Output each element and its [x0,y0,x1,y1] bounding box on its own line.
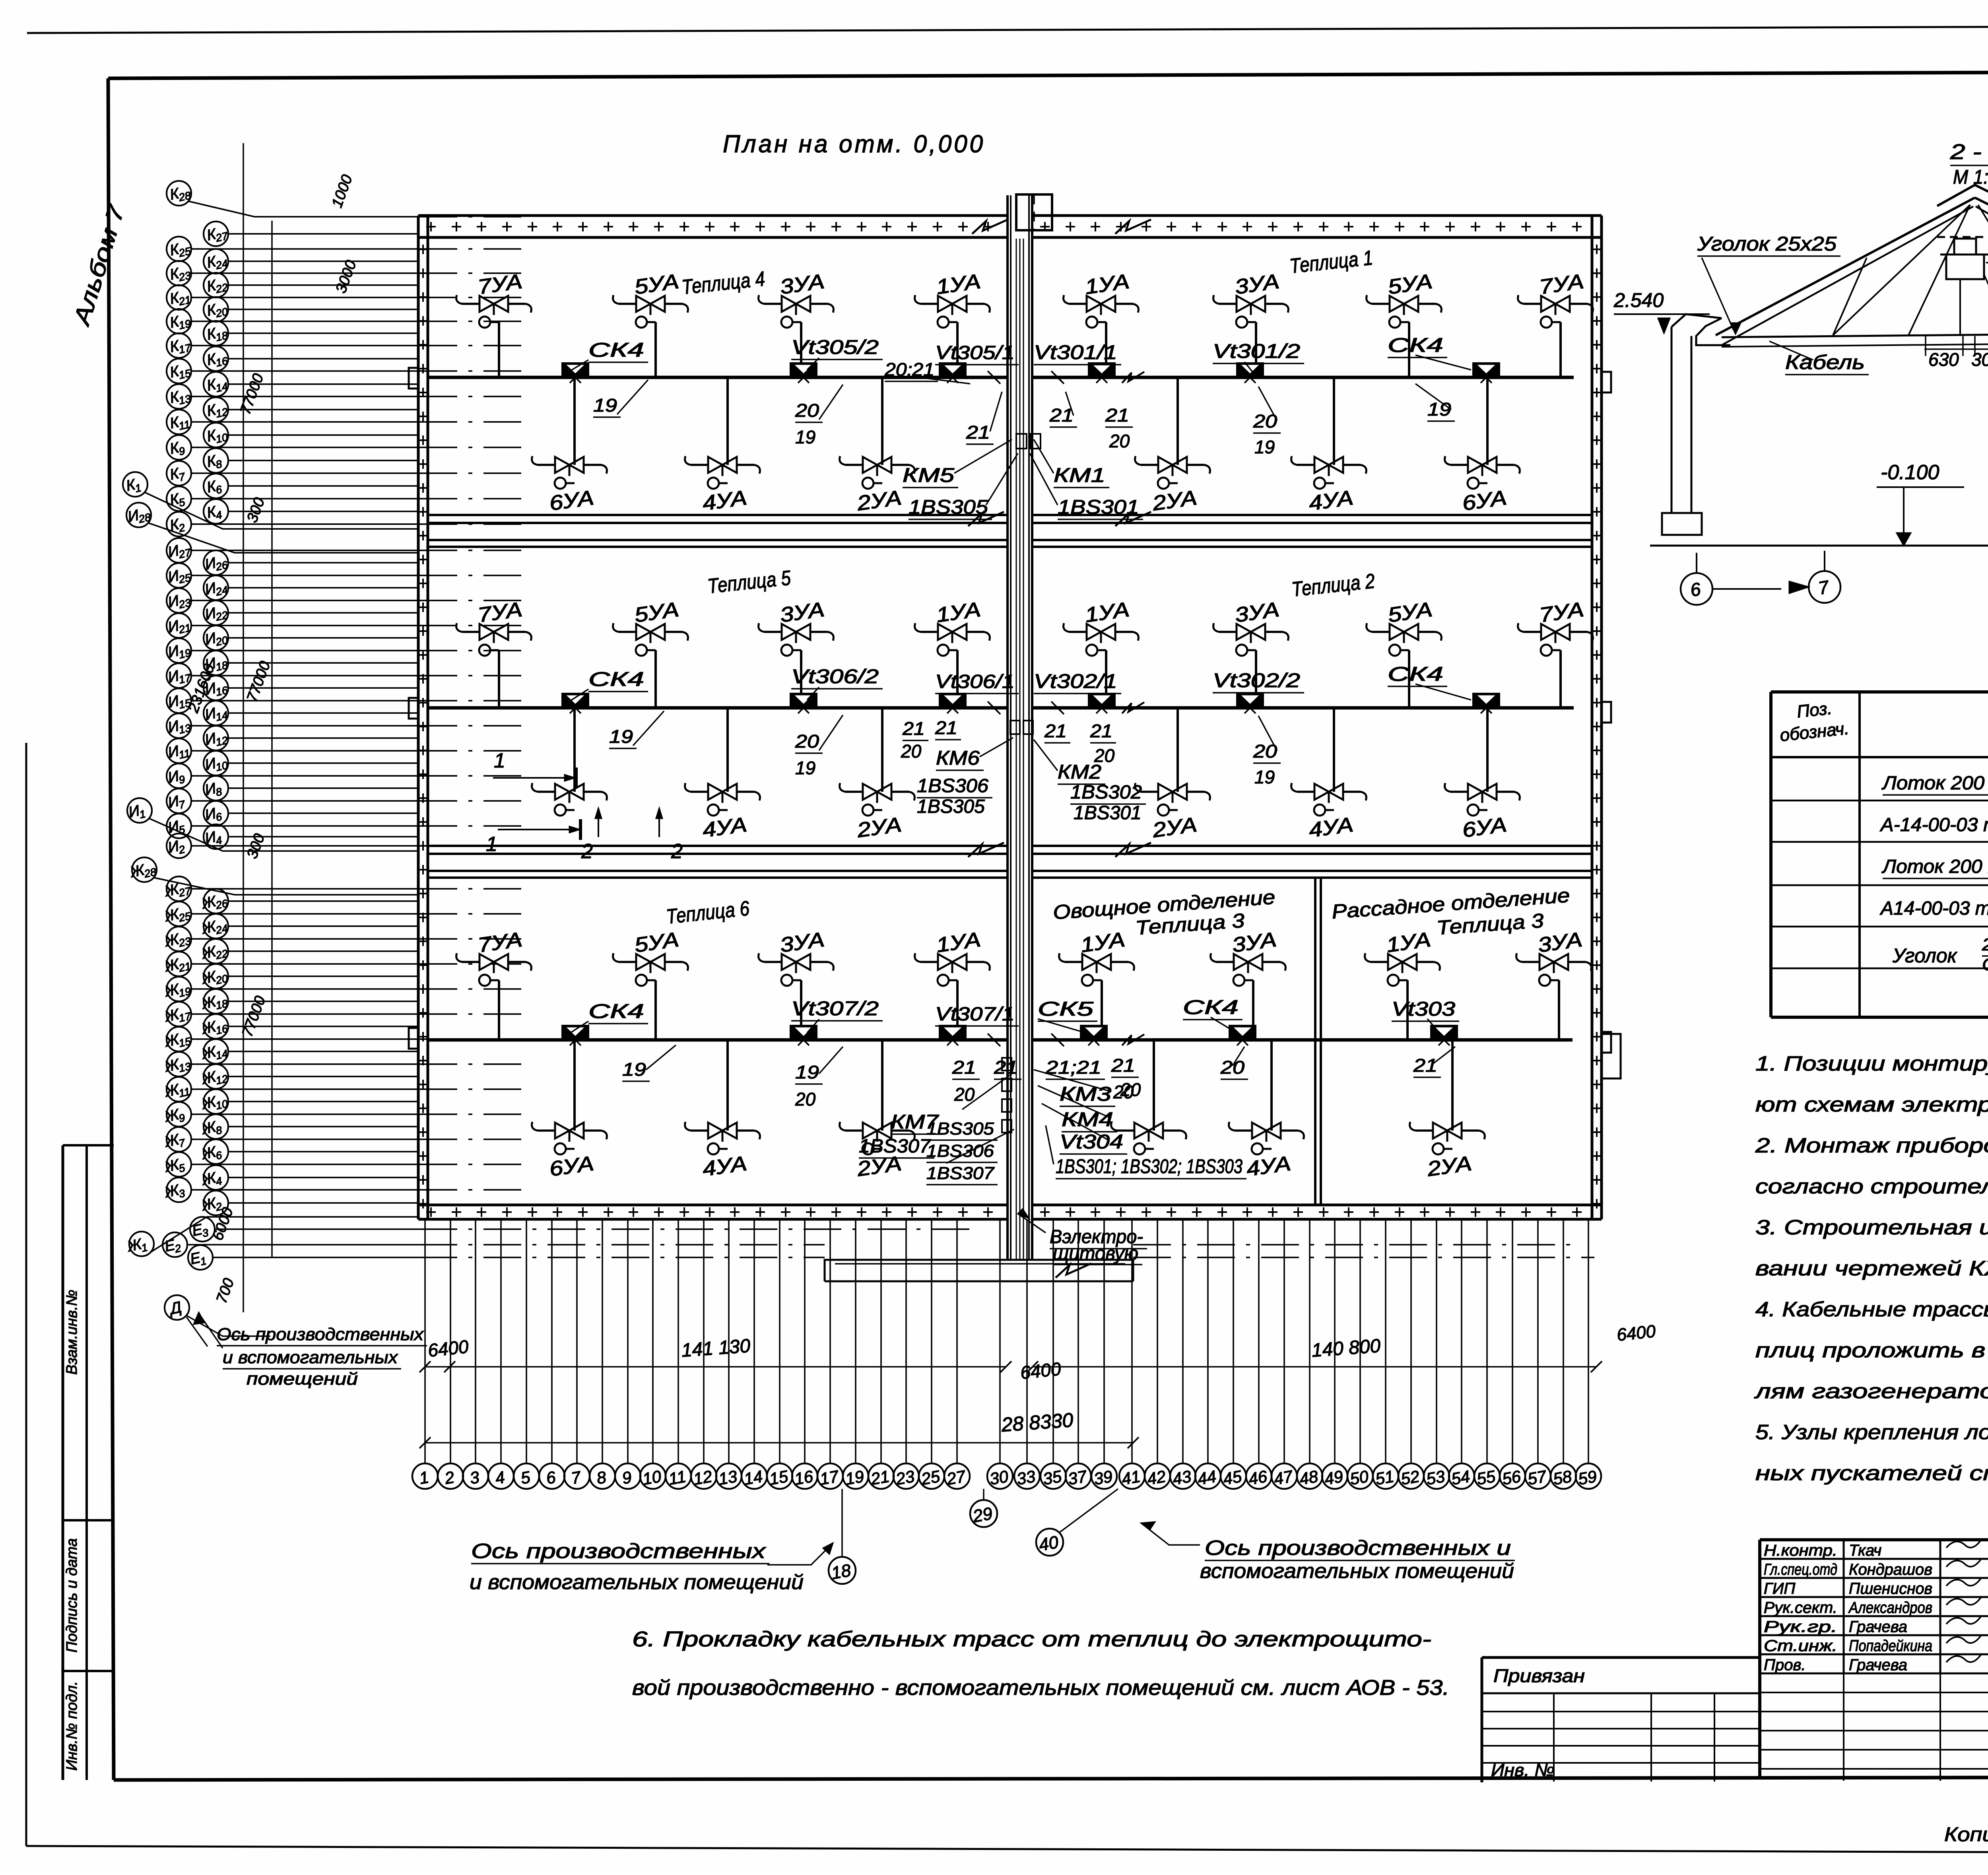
svg-text:19: 19 [844,1467,865,1488]
svg-text:21: 21 [1413,1055,1437,1076]
svg-text:29: 29 [971,1504,994,1526]
svg-text:1ВS301; 1ВS302; 1ВS303: 1ВS301; 1ВS302; 1ВS303 [1056,1155,1242,1177]
svg-text:18: 18 [215,329,229,344]
svg-text:вании чертежей КЖ1 альбома 2: вании чертежей КЖ1 альбома 2 и ТХ1 альбо… [1755,1257,1988,1280]
svg-text:Инв.№ подл.: Инв.№ подл. [64,1681,80,1770]
svg-text:СК4: СК4 [1388,334,1443,356]
svg-text:-0.100: -0.100 [1881,461,1939,484]
svg-text:21: 21 [902,718,925,739]
svg-text:вой производственно - вспомог: вой производственно - вспомогательных по… [632,1676,1449,1700]
svg-text:Vt303: Vt303 [1392,998,1455,1020]
svg-text:6. Прокладку кабельных трас: 6. Прокладку кабельных трасс от теплиц д… [632,1627,1431,1651]
svg-text:19: 19 [178,985,192,999]
svg-text:18: 18 [215,659,229,673]
svg-text:10: 10 [215,431,229,445]
svg-text:42: 42 [1145,1467,1167,1488]
svg-text:Vt307/1: Vt307/1 [935,1004,1015,1025]
svg-text:1ВS307: 1ВS307 [926,1164,995,1183]
svg-text:13: 13 [178,722,192,736]
svg-text:44: 44 [1196,1467,1217,1488]
svg-text:20: 20 [795,1089,816,1109]
svg-text:21: 21 [966,422,990,443]
svg-text:Vt306/1: Vt306/1 [935,671,1015,692]
svg-text:11: 11 [667,1467,687,1488]
svg-text:24: 24 [214,922,229,937]
svg-text:вспомогательных помещений: вспомогательных помещений [1200,1560,1514,1583]
svg-text:СК5: СК5 [1038,998,1093,1020]
svg-text:33: 33 [1015,1467,1037,1488]
svg-text:2. Монтаж приборов и средс: 2. Монтаж приборов и средств автоматизац… [1755,1134,1988,1157]
svg-text:19: 19 [795,1062,819,1082]
svg-text:Ось производственных и: Ось производственных и [1205,1537,1511,1560]
svg-text:13: 13 [178,1060,192,1074]
svg-text:6400: 6400 [1019,1358,1062,1383]
svg-text:плиц проложить в лотках, а: плиц проложить в лотках, а от кабельных … [1755,1339,1988,1362]
svg-text:2: 2 [581,840,593,863]
svg-text:21: 21 [1090,721,1112,741]
svg-text:21: 21 [177,622,192,636]
svg-text:1: 1 [486,833,497,856]
svg-text:1: 1 [494,749,505,772]
svg-text:лям газогенераторов пролож: лям газогенераторов проложить по уголкам… [1754,1380,1988,1403]
svg-text:Ось производственных: Ось производственных [217,1325,424,1344]
svg-text:10: 10 [641,1467,663,1488]
svg-text:13: 13 [178,392,192,407]
svg-text:19: 19 [622,1059,646,1080]
svg-text:Пшениснов: Пшениснов [1849,1580,1932,1597]
svg-text:щитовую: щитовую [1053,1243,1138,1264]
svg-text:1ВS302: 1ВS302 [1070,782,1142,803]
svg-text:1ВS301: 1ВS301 [1058,496,1139,518]
svg-text:22: 22 [214,609,229,623]
svg-text:24: 24 [214,257,229,272]
svg-text:630: 630 [1928,349,1959,370]
svg-text:25 х 25 х3-В ГОСТ8509-86: 25 х 25 х3-В ГОСТ8509-86 [1982,935,1988,954]
svg-text:14: 14 [742,1467,764,1488]
svg-text:41: 41 [1120,1467,1142,1488]
svg-text:19: 19 [1427,399,1451,420]
svg-text:21: 21 [935,717,957,738]
svg-text:План на отм. 0,000: План на отм. 0,000 [723,130,985,158]
svg-text:19: 19 [1254,767,1275,787]
svg-text:Александров: Александров [1848,1599,1932,1617]
svg-text:56: 56 [1501,1467,1522,1488]
svg-text:4. Кабельные трассы в соеди: 4. Кабельные трассы в соединительном кор… [1755,1298,1988,1321]
svg-text:20;21: 20;21 [884,359,934,380]
svg-text:59: 59 [1576,1467,1598,1488]
svg-text:23: 23 [177,935,192,949]
svg-text:20: 20 [1220,1057,1245,1078]
svg-text:КМ1: КМ1 [1054,464,1105,486]
svg-text:50: 50 [1348,1467,1370,1488]
svg-text:21: 21 [177,293,192,308]
svg-text:КМ5: КМ5 [903,464,954,486]
svg-text:СК4: СК4 [588,339,644,361]
svg-text:19: 19 [178,647,192,661]
svg-text:и вспомогательных: и вспомогательных [223,1348,398,1367]
svg-text:49: 49 [1323,1467,1344,1488]
svg-text:13: 13 [717,1467,738,1488]
svg-text:15: 15 [768,1467,790,1488]
svg-text:Ст 3сп 3- 1 ГОСТ 535 - 79: Ст 3сп 3- 1 ГОСТ 535 - 79 [1982,955,1988,974]
svg-text:2 - 2: 2 - 2 [1950,140,1988,164]
svg-text:А14-00-03 тип Л1.00.01.00А ТУ: А14-00-03 тип Л1.00.01.00А ТУ 70.0006.04… [1879,898,1988,919]
svg-text:12: 12 [215,1073,229,1087]
svg-text:Vt306/2: Vt306/2 [791,665,879,688]
svg-text:1ВS301: 1ВS301 [1074,802,1142,824]
svg-text:Взам.инв.№: Взам.инв.№ [64,1290,80,1375]
svg-text:21;21: 21;21 [1045,1057,1101,1078]
svg-text:СК4: СК4 [588,1000,644,1022]
svg-text:23: 23 [177,269,192,284]
svg-text:Гл.спец.отд: Гл.спец.отд [1764,1561,1837,1578]
svg-text:Vt302/1: Vt302/1 [1034,670,1117,692]
svg-text:Привязан: Привязан [1493,1665,1585,1686]
svg-text:19: 19 [795,758,815,778]
svg-text:Ст.инж.: Ст.инж. [1764,1637,1837,1655]
svg-text:М 1:50: М 1:50 [1953,166,1988,188]
svg-text:помещений: помещений [247,1369,358,1389]
svg-text:Vt301/1: Vt301/1 [1034,341,1117,363]
svg-text:20: 20 [1109,431,1130,451]
svg-text:1ВS306: 1ВS306 [917,775,988,797]
svg-text:20: 20 [214,972,229,987]
svg-text:ют схемам электрическим сое: ют схемам электрическим соединений АОВ-3… [1755,1093,1988,1116]
svg-text:1. Позиции монтируемых прибо: 1. Позиции монтируемых приборов и аппара… [1755,1052,1988,1075]
svg-text:Грачева: Грачева [1849,1656,1907,1674]
svg-text:Vt307/2: Vt307/2 [791,997,879,1020]
svg-text:2.540: 2.540 [1613,289,1664,311]
svg-text:3. Строительная и технологич: 3. Строительная и технологическая части … [1755,1216,1988,1239]
svg-text:19: 19 [178,317,192,332]
svg-text:Vt301/2: Vt301/2 [1213,340,1300,362]
svg-text:А-14-00-03 тип Б5.00.01.00 ТУ: А-14-00-03 тип Б5.00.01.00 ТУ 70.0006.04… [1879,814,1988,835]
svg-text:Грачева: Грачева [1849,1618,1907,1636]
svg-text:СК4: СК4 [1388,663,1443,685]
svg-text:Vt305/2: Vt305/2 [791,336,879,358]
svg-text:Уголок 25х25: Уголок 25х25 [1697,233,1837,255]
svg-text:6400: 6400 [427,1336,470,1360]
svg-text:Уголок: Уголок [1892,944,1958,967]
svg-text:24: 24 [214,584,229,598]
svg-text:20: 20 [795,400,819,421]
svg-text:согласно строительным норма: согласно строительным нормам и правилам … [1755,1175,1988,1198]
svg-text:20: 20 [954,1084,975,1105]
svg-text:54: 54 [1450,1467,1471,1488]
svg-text:21: 21 [1111,1055,1135,1076]
svg-text:12: 12 [692,1467,713,1488]
svg-text:21: 21 [1105,405,1129,426]
svg-text:22: 22 [214,281,229,295]
svg-text:27: 27 [945,1467,967,1488]
svg-text:Vt302/2: Vt302/2 [1213,669,1300,692]
svg-text:48: 48 [1298,1467,1320,1488]
svg-text:58: 58 [1551,1467,1573,1488]
svg-text:Лоток 200 мм длина 6.4м с дву: Лоток 200 мм длина 6.4м с двумя накладка… [1881,856,1988,877]
svg-text:45: 45 [1221,1467,1243,1488]
svg-text:Копировал Попова: Копировал Попова [1944,1823,1988,1846]
svg-text:23: 23 [894,1467,916,1489]
svg-text:Рук.сект.: Рук.сект. [1764,1599,1837,1617]
svg-text:6400: 6400 [1616,1321,1657,1345]
svg-text:1ВS305: 1ВS305 [909,496,988,518]
svg-text:1ВS305: 1ВS305 [926,1119,994,1139]
svg-text:20: 20 [214,305,229,320]
svg-text:10: 10 [215,1098,229,1112]
svg-text:40: 40 [1037,1532,1060,1555]
svg-text:21: 21 [1044,721,1067,741]
svg-text:Пров.: Пров. [1764,1656,1806,1674]
svg-text:14: 14 [215,1047,229,1062]
svg-text:16: 16 [793,1467,815,1488]
svg-text:ных пускателей см. листы: ных пускателей см. листы АОВН1... АОВН4,… [1755,1462,1988,1485]
svg-text:10: 10 [215,759,229,773]
svg-text:20: 20 [795,731,819,752]
svg-text:5. Узлы крепления лотков, уг: 5. Узлы крепления лотков, уголков,соедин… [1755,1421,1988,1444]
svg-text:21: 21 [1049,405,1074,426]
svg-text:46: 46 [1247,1467,1269,1488]
svg-text:55: 55 [1475,1467,1497,1488]
svg-text:2: 2 [671,840,683,863]
svg-text:КМ2: КМ2 [1058,761,1101,783]
svg-text:КМ6: КМ6 [936,747,980,769]
svg-text:30: 30 [988,1467,1010,1488]
svg-text:Vt305/1: Vt305/1 [935,342,1015,363]
svg-text:21: 21 [177,960,192,974]
svg-text:20: 20 [901,741,922,762]
svg-text:СК4: СК4 [1183,996,1239,1018]
svg-text:18: 18 [830,1560,852,1583]
svg-text:22: 22 [214,947,229,962]
svg-text:25: 25 [919,1467,942,1488]
svg-text:Попадейкина: Попадейкина [1849,1637,1932,1655]
svg-text:19: 19 [609,726,633,747]
svg-text:14: 14 [215,709,229,723]
svg-text:14: 14 [215,380,229,394]
svg-text:Лоток 200 мм длиной 3м с двум: Лоток 200 мм длиной 3м с двумя накладкам… [1881,773,1988,794]
svg-text:19: 19 [1254,437,1275,457]
svg-text:23: 23 [177,597,192,611]
svg-text:20: 20 [1120,1079,1141,1100]
svg-text:21: 21 [869,1467,891,1489]
svg-text:Vt304: Vt304 [1060,1131,1123,1153]
svg-text:18: 18 [215,997,229,1012]
svg-text:Подпись и дата: Подпись и дата [64,1538,80,1652]
svg-text:35: 35 [1041,1467,1063,1488]
svg-text:Ось производственных: Ось производственных [471,1540,767,1563]
svg-text:19: 19 [795,427,815,447]
svg-text:КМ3: КМ3 [1060,1083,1111,1105]
svg-text:Рук.гр.: Рук.гр. [1764,1618,1837,1636]
svg-text:Ткач: Ткач [1849,1542,1881,1559]
svg-text:12: 12 [215,734,229,748]
svg-text:ГИП: ГИП [1764,1580,1796,1597]
svg-text:СК4: СК4 [588,668,644,690]
svg-text:19: 19 [593,395,617,416]
svg-text:Кабель: Кабель [1785,351,1865,373]
svg-text:43: 43 [1171,1467,1192,1488]
svg-text:52: 52 [1399,1467,1421,1488]
svg-text:20: 20 [214,634,229,648]
svg-text:12: 12 [215,406,229,420]
svg-text:53: 53 [1425,1467,1446,1488]
svg-text:и вспомогательных помещений: и вспомогательных помещений [470,1571,804,1594]
svg-text:30: 30 [1971,349,1988,370]
svg-text:Кондрашов: Кондрашов [1849,1561,1932,1578]
svg-text:21: 21 [952,1057,976,1078]
svg-text:51: 51 [1374,1467,1395,1488]
svg-text:1ВS307: 1ВS307 [859,1136,931,1157]
svg-text:Поз.: Поз. [1796,699,1833,722]
svg-text:21: 21 [994,1057,1018,1078]
svg-text:1ВS305: 1ВS305 [917,796,985,817]
svg-text:39: 39 [1092,1467,1114,1488]
svg-text:Н.контр.: Н.контр. [1764,1542,1837,1559]
svg-text:Инв. №: Инв. № [1491,1760,1555,1780]
